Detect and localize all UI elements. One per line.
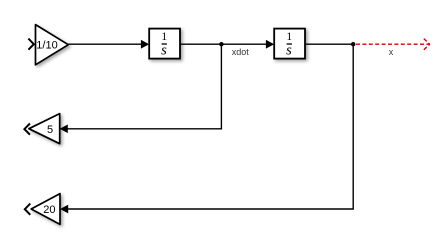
svg-text:xdot: xdot [232, 47, 250, 57]
gain block G3 value 20 (mirrored) [31, 194, 60, 225]
arrowhead into U1 [141, 41, 148, 48]
svg-text:s: s [286, 43, 292, 59]
integrator U1 [149, 29, 180, 59]
wire from U2 to node x [305, 43, 353, 45]
unconnected output port of G2 [24, 124, 30, 135]
gain block G1 value 1/10 [36, 25, 69, 65]
svg-text:1: 1 [286, 31, 292, 43]
gain block G2 value 5 (mirrored) [29, 114, 60, 144]
wire from U1 to integrator U2 [180, 43, 267, 45]
wire from node xdot down and left to gain G2 [67, 44, 222, 129]
junction node x [351, 42, 355, 46]
svg-text:x: x [389, 47, 394, 57]
wire from node x down and left to gain G3 [67, 44, 353, 209]
U1 label 1/s [161, 31, 167, 59]
arrowhead into G3 [61, 205, 68, 212]
svg-text:s: s [161, 43, 167, 59]
wire from G1 to integrator U1 [68, 43, 141, 45]
U2 label 1/s [286, 31, 292, 59]
svg-text:1/10: 1/10 [36, 39, 57, 51]
arrowhead into U2 [266, 41, 273, 48]
svg-text:5: 5 [47, 124, 53, 136]
junction node xdot [219, 42, 223, 46]
arrowhead into G2 [61, 125, 68, 132]
unconnected input port of G1 [28, 39, 33, 50]
svg-text:20: 20 [43, 204, 55, 216]
integrator U2 [274, 29, 305, 59]
red open arrowhead [424, 39, 430, 45]
svg-text:1: 1 [161, 31, 167, 43]
unconnected output port of G3 [25, 204, 31, 215]
unconnected signal line (red dashed) [356, 43, 430, 45]
